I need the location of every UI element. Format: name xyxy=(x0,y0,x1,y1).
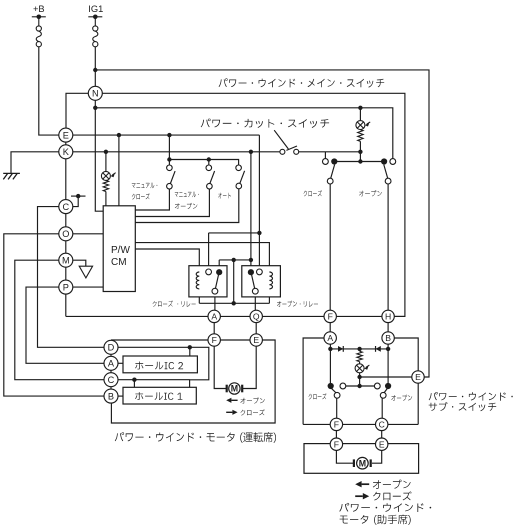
svg-text:M: M xyxy=(359,458,366,468)
svg-text:P/W: P/W xyxy=(111,245,130,256)
wire H to B2 xyxy=(387,323,389,332)
junction coil bar xyxy=(232,301,236,305)
label passenger motor l1 xyxy=(339,503,431,512)
junction row center xyxy=(358,159,362,163)
wire B2 to E2 xyxy=(394,338,418,371)
svg-text:E: E xyxy=(415,372,421,382)
junction K / relay common xyxy=(249,150,253,154)
label power cut switch leader xyxy=(274,130,288,149)
wire A2 wrap to F3 xyxy=(303,338,324,424)
svg-text:C: C xyxy=(379,419,385,429)
relay close armature xyxy=(215,275,218,289)
svg-text:+B: +B xyxy=(33,4,45,14)
wire A to hall2 xyxy=(118,362,123,364)
contact row NC right xyxy=(390,159,396,165)
svg-text:F: F xyxy=(328,311,333,321)
wire E4 to motor2 xyxy=(372,450,382,463)
label motor1 close xyxy=(241,409,265,415)
junction rail sw1 xyxy=(167,157,171,161)
contact row NO right xyxy=(381,158,387,164)
svg-text:P: P xyxy=(63,282,69,292)
svg-text:B: B xyxy=(385,333,391,343)
sub row NC left xyxy=(340,383,346,389)
lamp illumination (main switch) xyxy=(101,171,110,180)
wire third rail to open contact xyxy=(95,108,393,159)
label manual close l1 xyxy=(132,183,158,189)
wire lamp1 top xyxy=(105,152,107,172)
svg-text:F: F xyxy=(334,439,339,449)
label open relay xyxy=(277,301,318,307)
motor M2 xyxy=(357,457,369,469)
wire chain K-C xyxy=(65,159,67,200)
svg-text:C: C xyxy=(62,202,69,212)
ground triangle xyxy=(79,266,92,278)
wire N output rail to sub switch side xyxy=(102,93,405,316)
junction E line / switch feed xyxy=(167,133,171,137)
wire output rail xyxy=(66,315,405,317)
terminal F2 motor1 xyxy=(208,334,220,346)
wire IG1 top rail to right side xyxy=(95,70,429,377)
wire D to hall ics xyxy=(118,347,209,387)
sub switch close blade xyxy=(332,389,337,393)
terminal A sub xyxy=(324,332,336,344)
switch open blade xyxy=(384,165,388,179)
motor2 box xyxy=(304,444,419,474)
svg-text:O: O xyxy=(62,229,69,239)
relay close box xyxy=(189,266,227,297)
junction stub xyxy=(76,194,80,198)
resistor sub lamp xyxy=(357,351,362,361)
wire NC1 stub up xyxy=(208,233,210,269)
wire C3 to E4 xyxy=(381,431,383,438)
wire sw2 stub xyxy=(208,160,210,166)
wire K line right xyxy=(73,151,280,153)
label close (right) xyxy=(304,190,322,196)
wire C jog to stub xyxy=(73,196,78,207)
terminal H sub feed xyxy=(382,310,394,322)
svg-text:C: C xyxy=(108,375,115,385)
wire E2m to motor1 xyxy=(243,346,256,388)
diode left xyxy=(338,346,343,352)
label sub switch l1 xyxy=(429,392,513,401)
wire N to E xyxy=(66,93,88,128)
switch auto xyxy=(236,165,242,171)
wire C to hall1 feed xyxy=(118,379,190,381)
wire E2 left line xyxy=(360,376,412,378)
terminal K xyxy=(59,145,73,159)
relay close coil xyxy=(196,272,199,289)
wire sw3 to CM xyxy=(135,189,239,223)
junction below N xyxy=(93,106,97,110)
svg-text:IG1: IG1 xyxy=(88,4,103,14)
wire F3 to F4 xyxy=(335,431,337,438)
label manual open l2 xyxy=(175,203,198,209)
motor M2 brushes xyxy=(353,459,355,467)
wire B2 down xyxy=(387,344,389,383)
label close relay xyxy=(153,301,196,307)
svg-text:E: E xyxy=(63,130,69,140)
wire E-dot down into P/W CM xyxy=(118,135,120,206)
terminal B motor1 xyxy=(104,389,118,403)
wire chain O-M xyxy=(65,241,67,253)
junction E line / CM input xyxy=(117,133,121,137)
svg-text:E: E xyxy=(379,439,385,449)
svg-text:Q: Q xyxy=(253,311,260,321)
diode right xyxy=(376,346,381,352)
switch close blade xyxy=(331,165,335,179)
label motor2 close xyxy=(373,491,412,500)
wire chain C-B xyxy=(110,387,112,389)
svg-text:M: M xyxy=(62,256,70,266)
terminal C motor1 xyxy=(104,373,118,387)
relay open NO contact xyxy=(248,269,254,275)
wire switch top rail xyxy=(169,160,238,166)
terminal D motor1 xyxy=(104,340,118,354)
hall IC 1 box xyxy=(123,387,196,404)
wire left fixed contact stub xyxy=(324,152,326,159)
wire F to A2 xyxy=(329,323,331,332)
terminal A close output xyxy=(208,310,220,322)
label sub switch l2 xyxy=(429,402,497,411)
wire K line after cut switch xyxy=(299,151,361,153)
terminal E xyxy=(59,128,73,142)
wire C branch to hall1 xyxy=(133,380,135,388)
sub row NO right xyxy=(385,383,391,389)
label sub open xyxy=(391,395,412,401)
switch manual-open xyxy=(206,165,212,171)
junction K / lamp chain xyxy=(104,150,108,154)
wire relay NC cross xyxy=(209,232,260,234)
terminal F3 sub out xyxy=(330,418,342,430)
wire open side down to H xyxy=(387,184,389,310)
terminal Q open output xyxy=(250,310,262,322)
wire chain C-O xyxy=(65,214,67,227)
svg-text:B: B xyxy=(108,391,114,401)
wire chain D-A xyxy=(110,354,112,356)
sub switch open blade xyxy=(384,389,387,393)
label hall IC 1 xyxy=(135,392,182,400)
junction NO rail mid xyxy=(232,258,236,262)
wire O to CM xyxy=(73,233,103,235)
wire P down to output rail xyxy=(65,294,67,316)
wire F2 to motor1 xyxy=(214,346,226,388)
svg-text:F: F xyxy=(212,335,217,345)
lamp illumination (cut switch) xyxy=(356,121,365,130)
wire sw2 to CM xyxy=(135,189,209,217)
relay close NC contact xyxy=(206,269,212,275)
label manual open l1 xyxy=(175,192,199,198)
wire Q to E2m xyxy=(255,323,257,334)
contact row NC left xyxy=(323,159,329,165)
label passenger motor l2 xyxy=(340,515,411,525)
relay close NO contact xyxy=(216,269,222,275)
label motor1 open xyxy=(240,398,264,404)
svg-text:N: N xyxy=(92,89,99,99)
terminal C3 sub out xyxy=(376,418,388,430)
wire armature1 to A xyxy=(214,294,216,310)
relay open NC contact xyxy=(257,269,263,275)
wire chain E-K xyxy=(65,142,67,145)
wire F4 to motor2 xyxy=(336,450,353,463)
wire stub bar xyxy=(71,195,86,197)
switch manual-close xyxy=(167,165,173,171)
wire chain A-C xyxy=(110,370,112,372)
wire O to motor B xyxy=(4,234,104,396)
junction diode center xyxy=(357,347,361,351)
label auto xyxy=(218,193,231,199)
label motor2 open xyxy=(373,480,411,489)
wire lamp2 top xyxy=(359,108,361,121)
module P/W CM xyxy=(103,206,135,292)
svg-text:H: H xyxy=(385,311,391,321)
junction sub E line xyxy=(357,375,361,379)
wire sub close to F3 xyxy=(336,398,338,418)
wire lamp1 to CM xyxy=(105,192,107,206)
wire bar up to E2 xyxy=(417,383,419,424)
wire CM to open relay coil xyxy=(135,243,269,272)
wire M to motor C xyxy=(15,260,104,380)
label driver motor xyxy=(115,432,276,443)
relay open coil xyxy=(269,272,272,289)
junction D line xyxy=(188,345,192,349)
wire close side down to F xyxy=(329,184,331,310)
wire sub lamp down xyxy=(359,373,361,386)
label manual close l2 xyxy=(132,193,150,199)
ground chassis xyxy=(3,172,20,174)
wire IG1 down to P/W CM xyxy=(95,47,103,211)
wire coil bar xyxy=(198,289,200,303)
svg-text:CM: CM xyxy=(111,257,127,268)
arrow motor2 open xyxy=(362,483,370,485)
contact row line xyxy=(334,161,384,163)
junction E feed / cross wire xyxy=(257,231,261,235)
label power cut switch xyxy=(201,119,329,128)
svg-text:A: A xyxy=(108,359,115,369)
terminal A motor1 xyxy=(104,356,118,370)
wire lamp2 to contact row xyxy=(359,141,361,161)
svg-text:D: D xyxy=(108,343,115,353)
terminal M xyxy=(59,253,73,267)
switch power-cut contacts xyxy=(280,149,285,154)
resistor lamp1 xyxy=(103,180,108,191)
wire A2 down xyxy=(329,344,331,383)
sub contact row line xyxy=(343,385,377,387)
wire sw1 to CM xyxy=(135,189,169,210)
label open (right) xyxy=(359,190,382,196)
terminal N xyxy=(88,86,102,100)
terminal O xyxy=(59,227,73,241)
wire P to CM xyxy=(73,286,103,288)
wire M to ground arrow xyxy=(73,260,86,266)
junction K end lamp2 xyxy=(358,150,362,154)
motor M1 brushes xyxy=(226,385,228,393)
svg-text:E: E xyxy=(253,335,259,345)
terminal F sub feed xyxy=(324,310,336,322)
sub row NO left xyxy=(328,383,334,389)
label sub close xyxy=(309,393,327,399)
svg-text:M: M xyxy=(231,384,238,394)
motor assembly outline xyxy=(111,340,275,423)
label power window main switch xyxy=(219,78,385,87)
wire sub open to C3 xyxy=(381,398,383,418)
wire E feed down to relay contacts xyxy=(258,135,260,269)
terminal P xyxy=(59,280,73,294)
wire E line to relays xyxy=(73,134,260,136)
wire sub bottom bar xyxy=(303,423,418,425)
junction rail sw2 xyxy=(207,157,211,161)
wire diode line xyxy=(330,348,388,350)
wire NO1 stub xyxy=(218,260,220,269)
motor M1 xyxy=(229,383,240,394)
svg-text:F: F xyxy=(334,419,339,429)
resistor lamp2 xyxy=(358,130,363,142)
wire CM to close relay coil xyxy=(135,249,199,272)
fuse on IG1 line xyxy=(88,16,102,18)
wire resistor to lamp xyxy=(359,362,361,364)
terminal E motor1 xyxy=(250,334,262,346)
svg-text:A: A xyxy=(327,333,333,343)
wire +B feed down to terminal E xyxy=(39,47,59,135)
wire B to hall1 xyxy=(118,395,123,397)
relay open box xyxy=(242,266,281,297)
hall IC 2 box xyxy=(123,356,197,373)
wire D branch to hall2 xyxy=(189,347,191,356)
junction top rail lamp2 xyxy=(358,106,362,110)
wire mid vert to coil bar xyxy=(233,260,235,303)
wire armature2 to Q xyxy=(254,294,256,310)
wire A to F2 xyxy=(213,323,215,334)
arrow motor2 close xyxy=(355,495,363,497)
contact row NO left xyxy=(331,158,337,164)
wire P to motor A xyxy=(26,287,104,363)
wire K to relay NO contacts xyxy=(250,152,252,269)
junction C line xyxy=(132,378,136,382)
fuse on +B line xyxy=(32,16,46,18)
junction IG1 branch xyxy=(93,68,97,72)
wire C to motor D xyxy=(38,207,105,348)
junction NO rail right xyxy=(249,258,253,262)
svg-text:K: K xyxy=(63,147,70,157)
terminal E sub xyxy=(412,371,424,383)
wire K line left to ground xyxy=(11,152,59,174)
terminal E4 motor2 xyxy=(376,438,388,450)
arrow motor1 open xyxy=(231,399,237,401)
svg-text:A: A xyxy=(211,311,217,321)
terminal F4 motor2 xyxy=(330,438,342,450)
switch power-cut blade xyxy=(286,146,297,150)
relay open armature xyxy=(252,275,255,289)
wire chain M-P xyxy=(65,267,67,280)
wire sw1 feed xyxy=(168,135,170,165)
wire NO rail xyxy=(219,259,251,261)
lamp illumination (sub switch) xyxy=(355,364,364,373)
terminal B sub xyxy=(382,332,394,344)
junction sub row center xyxy=(357,384,361,388)
junction diode left xyxy=(328,347,332,351)
junction diode right xyxy=(386,347,390,351)
sub row NC right xyxy=(374,383,380,389)
arrow motor1 close xyxy=(226,411,232,413)
terminal C xyxy=(59,200,73,214)
label hall IC 2 xyxy=(135,362,183,370)
